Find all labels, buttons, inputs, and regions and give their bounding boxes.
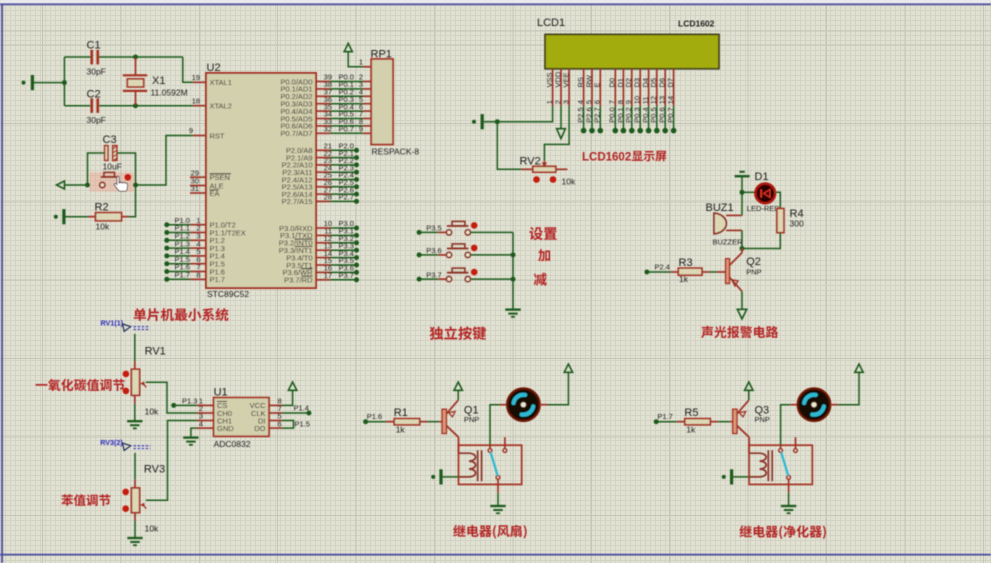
LCD pin 13 D6 — [658, 69, 668, 134]
svg-text:RV1: RV1 — [145, 346, 166, 358]
svg-text:P0.7: P0.7 — [666, 107, 675, 122]
ground terminal (relay coil) — [431, 469, 459, 484]
wire VEE to RV2 wiper — [544, 106, 569, 161]
U2 pin 24 / node P2.3 — [282, 163, 359, 177]
U2 pin 33 / node P0.6 to RP1 — [280, 117, 371, 131]
fan/motor — [507, 388, 540, 421]
selection highlight (pink) — [90, 172, 135, 192]
svg-text:LCD1602: LCD1602 — [582, 151, 631, 163]
node P1.5 (U1 DI/DO) — [282, 420, 310, 429]
LCD pin 3 VEE — [562, 69, 571, 106]
LCD pin 10 D3 — [633, 69, 643, 134]
U2 pin 2 / node P1.1 — [164, 224, 206, 235]
power terminal (RP1 pin 1) — [344, 43, 363, 67]
svg-text:3: 3 — [562, 100, 571, 104]
potentiometer RV1 10k — [123, 334, 166, 421]
svg-text:RST: RST — [210, 131, 225, 140]
svg-text:RV3(2): RV3(2) — [100, 438, 123, 447]
wire C1-C2 left vertical — [63, 57, 65, 106]
LCD pin 5 RW — [584, 69, 594, 134]
svg-text:C1: C1 — [87, 40, 101, 52]
svg-text:P3.7/RD: P3.7/RD — [284, 276, 313, 285]
svg-text:P2.7: P2.7 — [593, 107, 602, 122]
label 苯值调节 — [61, 494, 110, 506]
U2 pin 13 / node P3.3 — [279, 241, 359, 255]
svg-text:1k: 1k — [679, 274, 689, 284]
sheet border top — [0, 0, 991, 3]
power terminal (motor) — [830, 364, 863, 405]
wire relay common to motor — [781, 405, 798, 449]
svg-text:PNP: PNP — [464, 415, 479, 424]
svg-text:D7: D7 — [666, 78, 675, 88]
svg-text:STC89C52: STC89C52 — [207, 289, 249, 299]
svg-text:P3.6: P3.6 — [426, 246, 441, 255]
svg-text:LED-RED: LED-RED — [747, 204, 781, 213]
svg-text:P1.7: P1.7 — [657, 412, 672, 421]
resistor R1 1k — [386, 407, 442, 435]
U1 pin stubs — [197, 397, 282, 429]
reset push button — [100, 172, 131, 187]
svg-text:6: 6 — [593, 100, 602, 104]
wire net XTAL1 (C1 top to U2 XTAL1) — [62, 55, 193, 86]
sheet border left — [1, 4, 3, 563]
svg-text:C2: C2 — [87, 89, 101, 101]
U2 pin 5 / node P1.4 — [164, 247, 206, 258]
LCD pin 12 D5 — [649, 69, 659, 134]
LCD pin 11 D4 — [641, 69, 651, 134]
wire RST net — [57, 136, 194, 190]
svg-text:C3: C3 — [103, 134, 117, 146]
svg-text:VEE: VEE — [562, 72, 571, 87]
svg-text:10uF: 10uF — [103, 162, 122, 172]
U2 pin 6 / node P1.5 — [164, 255, 206, 266]
wire net XTAL2 (C2 to U2 XTAL2) — [64, 103, 193, 108]
svg-text:GND: GND — [217, 424, 234, 433]
U2 pin 3 / node P1.2 — [164, 232, 206, 243]
U2 pin 9 RST stub — [189, 126, 206, 136]
push button P3.5 — [417, 221, 513, 235]
U2 pin 32 / node P0.7 to RP1 — [280, 125, 371, 139]
mouse hand cursor — [114, 176, 127, 191]
relay coil+switch — [459, 437, 522, 484]
U2 pin 23 / node P2.2 — [282, 156, 359, 170]
svg-text:LCD1602: LCD1602 — [678, 19, 715, 29]
label LCD1602显示屏 — [582, 151, 666, 164]
ADC U1 ADC0832 body — [214, 387, 269, 450]
svg-text:P0.7: P0.7 — [339, 125, 354, 134]
svg-text:32: 32 — [324, 125, 332, 134]
svg-text:XTAL2: XTAL2 — [210, 102, 232, 111]
ground (relay switch) — [490, 479, 505, 513]
ground (buttons) — [505, 310, 520, 317]
svg-text:9: 9 — [359, 125, 363, 134]
svg-text:10k: 10k — [145, 524, 159, 534]
svg-text:4: 4 — [199, 419, 203, 428]
label 声光报警电路 — [701, 326, 778, 338]
svg-text:PNP: PNP — [755, 415, 770, 424]
label 单片机最小系统 — [134, 308, 229, 321]
svg-text:RV3: RV3 — [144, 464, 165, 476]
svg-text:1: 1 — [359, 58, 363, 67]
ground (alarm, inverted) — [735, 172, 750, 195]
svg-text:P1.5: P1.5 — [295, 420, 310, 429]
svg-text:ADC0832: ADC0832 — [214, 439, 251, 449]
U2 pin 8 / node P1.7 — [164, 271, 206, 282]
net flag RV3(2) — [100, 438, 150, 451]
label 减 — [534, 273, 547, 286]
LCD pin 9 D2 — [624, 69, 634, 134]
U2 pin 17 / node P3.7 — [284, 271, 359, 285]
svg-text:RV1(1): RV1(1) — [101, 319, 124, 328]
label 继电器(净化器) — [739, 525, 825, 539]
LCD pin 6 E — [593, 69, 603, 134]
U2 pin 25 / node P2.4 — [282, 171, 359, 185]
svg-text:E: E — [593, 82, 602, 87]
svg-text:30pF: 30pF — [87, 115, 106, 125]
LCD pin 7 D0 — [608, 69, 618, 134]
svg-text:P2.7: P2.7 — [339, 193, 354, 202]
svg-text:6: 6 — [278, 419, 282, 428]
capacitor C3 10uF — [103, 134, 122, 172]
svg-text:P2.7/A15: P2.7/A15 — [282, 197, 313, 206]
svg-text:X1: X1 — [152, 75, 165, 87]
svg-text:BUZ1: BUZ1 — [706, 202, 734, 214]
power terminal down (Q2 emitter) — [737, 291, 746, 319]
svg-text:DO: DO — [254, 424, 265, 433]
svg-text:10k: 10k — [96, 222, 110, 232]
ground terminal (crystal caps) — [22, 75, 65, 90]
U2 pin 15 / node P3.5 — [286, 256, 359, 270]
svg-text:P2.4: P2.4 — [655, 262, 670, 271]
svg-text:18: 18 — [192, 97, 200, 106]
ground (relay switch) — [781, 479, 796, 513]
svg-text:R3: R3 — [679, 257, 693, 269]
wire RV1 wiper to ADC CH0 — [146, 382, 197, 413]
U2 pin 11 / node P3.1 — [280, 227, 359, 241]
U2 pin 4 / node P1.3 — [164, 239, 206, 250]
U2 pin 34 / node P0.5 to RP1 — [280, 110, 371, 124]
U2 pin 18 XTAL2 stub — [192, 97, 206, 106]
U2 pins 29/30/31 PSEN ALE EA stubs — [190, 168, 206, 193]
svg-text:30pF: 30pF — [87, 67, 106, 77]
net flag RV1(1) — [101, 319, 151, 332]
U2 pin 26 / node P2.5 — [282, 178, 359, 192]
U2 pin 28 / node P2.7 — [282, 193, 359, 207]
wire buttons common to ground — [511, 232, 516, 309]
transistor Q2 PNP — [726, 249, 762, 292]
resistor R3 1k / node P2.4 — [644, 257, 725, 284]
power terminal down (LCD VDD) — [557, 106, 566, 139]
U1 left pin names — [217, 401, 266, 433]
U2 left pin names — [210, 78, 246, 284]
svg-text:R2: R2 — [95, 202, 109, 214]
U2 pin 38 / node P0.1 to RP1 — [280, 80, 371, 94]
svg-text:P3.7: P3.7 — [426, 270, 441, 279]
U2 pin 27 / node P2.6 — [282, 185, 359, 199]
svg-text:BUZZER: BUZZER — [713, 238, 744, 247]
U2 pin 36 / node P0.3 to RP1 — [280, 95, 371, 109]
LCD pin 14 D7 — [666, 69, 676, 134]
U2 pin 39 / node P0.0 to RP1 — [280, 73, 371, 87]
microcontroller U2 STC89C52 body — [206, 62, 316, 299]
U2 pin 7 / node P1.6 — [164, 263, 206, 274]
svg-text:U2: U2 — [207, 62, 221, 74]
svg-text:RP1: RP1 — [371, 49, 392, 61]
node P1.7 — [654, 412, 677, 424]
U2 pin 10 / node P3.0 — [279, 219, 359, 233]
U2 pin 1 / node P1.0 — [164, 216, 206, 227]
power terminal (motor) — [540, 364, 573, 405]
svg-text:300: 300 — [790, 219, 804, 229]
push button P3.7 — [417, 268, 513, 282]
svg-text:PNP: PNP — [746, 268, 761, 277]
resistor R5 1k — [677, 407, 733, 435]
U2 pin 19 XTAL1 stub — [192, 73, 211, 85]
U2 pin 21 / node P2.0 — [286, 142, 359, 156]
svg-text:1k: 1k — [686, 425, 696, 435]
U2 pin 22 / node P2.1 — [286, 149, 359, 163]
sheet border bottom — [0, 554, 991, 556]
svg-text:8: 8 — [196, 271, 200, 280]
transistor Q1 PNP — [442, 400, 479, 453]
U2 pin 12 / node P3.2 — [279, 234, 359, 248]
potentiometer RV2 10k — [497, 122, 576, 187]
label 加 — [538, 249, 550, 261]
U2 pin 14 / node P3.4 — [286, 249, 359, 263]
svg-text:P1.6: P1.6 — [367, 412, 382, 421]
svg-text:31: 31 — [191, 184, 199, 193]
U2 pin 37 / node P0.2 to RP1 — [280, 88, 371, 102]
node P1.3 to U1 CS — [171, 396, 197, 408]
svg-text:14: 14 — [666, 96, 675, 104]
svg-text:P1.4: P1.4 — [294, 404, 309, 413]
svg-text:P1.7: P1.7 — [175, 271, 190, 280]
LCD pin 1 VSS — [545, 69, 554, 106]
fan/motor — [798, 388, 831, 421]
ground terminal (relay coil) — [722, 469, 750, 484]
svg-text:9: 9 — [189, 126, 193, 135]
label 继电器(风扇) — [453, 525, 526, 539]
svg-text:D1: D1 — [755, 171, 769, 183]
push button P3.6 — [417, 244, 513, 258]
crystal X1 11.0592M — [123, 58, 188, 105]
svg-text:17: 17 — [324, 271, 332, 280]
buzzer BUZ1 — [706, 192, 744, 248]
U2 pin 16 / node P3.6 — [282, 264, 359, 278]
power terminal (Q3 emitter) — [745, 382, 753, 400]
resistor pack RP1 RESPACK-8 — [359, 49, 419, 157]
svg-text:11.0592M: 11.0592M — [151, 88, 188, 98]
wire relay common to motor — [490, 405, 507, 449]
label 一氧化碳值调节 — [35, 379, 124, 391]
LCD pin 8 D1 — [616, 69, 626, 134]
node P1.4 (U1 CLK) — [282, 404, 312, 416]
svg-text:P1.7: P1.7 — [210, 275, 225, 284]
power terminal (Q1 emitter) — [454, 382, 462, 400]
capacitor C2 30pF — [87, 89, 106, 126]
capacitor C1 30pF — [87, 40, 106, 77]
LCD1 display LCD1602 — [537, 17, 719, 69]
svg-text:XTAL1: XTAL1 — [210, 78, 232, 87]
LCD pin 2 VDD — [553, 69, 562, 106]
svg-text:P0.7/AD7: P0.7/AD7 — [280, 129, 312, 138]
ground (RV3) — [127, 538, 142, 545]
svg-text:1k: 1k — [396, 425, 406, 435]
svg-text:Q2: Q2 — [746, 256, 761, 268]
svg-text:28: 28 — [324, 193, 332, 202]
label 设置 — [529, 227, 556, 240]
svg-text:10k: 10k — [145, 407, 159, 417]
svg-text:P1.3: P1.3 — [182, 396, 197, 405]
svg-text:10k: 10k — [562, 177, 576, 187]
svg-text:RESPACK-8: RESPACK-8 — [372, 147, 420, 157]
svg-text:P3.7: P3.7 — [339, 271, 354, 280]
U2 pin 35 / node P0.4 to RP1 — [280, 102, 371, 116]
power terminal (U1 VCC) — [282, 382, 297, 405]
LED D1 LED-RED — [742, 171, 780, 213]
potentiometer RV3 10k — [122, 453, 165, 538]
node P1.6 — [363, 412, 386, 424]
relay coil+switch — [749, 437, 812, 484]
svg-text:P3.5: P3.5 — [426, 224, 441, 233]
ground (RV1) — [127, 421, 142, 428]
resistor R2 10k — [54, 185, 136, 232]
svg-text:R1: R1 — [394, 407, 408, 419]
label 独立按键 — [430, 326, 487, 340]
LCD pin 4 RS — [576, 69, 586, 134]
ground (U1 GND) — [183, 428, 198, 445]
ground terminal (LCD VSS) — [472, 106, 553, 130]
svg-text:RV2: RV2 — [520, 156, 541, 168]
transistor Q3 PNP — [733, 400, 770, 453]
svg-text:19: 19 — [192, 73, 200, 82]
resistor R4 300 — [740, 192, 804, 251]
svg-text:R5: R5 — [684, 407, 698, 419]
svg-text:U1: U1 — [214, 387, 228, 399]
svg-text:LCD1: LCD1 — [537, 17, 565, 29]
wire C3 loop — [88, 153, 136, 185]
wire RV3 wiper to ADC CH1 — [146, 421, 197, 501]
